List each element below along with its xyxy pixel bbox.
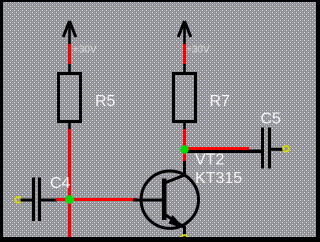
svg-text:+30V: +30V bbox=[186, 45, 210, 56]
svg-text:R7: R7 bbox=[210, 93, 231, 110]
svg-text:KT315: KT315 bbox=[195, 170, 242, 187]
svg-text:VT2: VT2 bbox=[195, 152, 224, 169]
svg-text:C5: C5 bbox=[261, 111, 282, 128]
svg-text:R5: R5 bbox=[95, 93, 116, 110]
svg-text:+30V: +30V bbox=[73, 45, 97, 56]
svg-text:C4: C4 bbox=[50, 175, 71, 192]
